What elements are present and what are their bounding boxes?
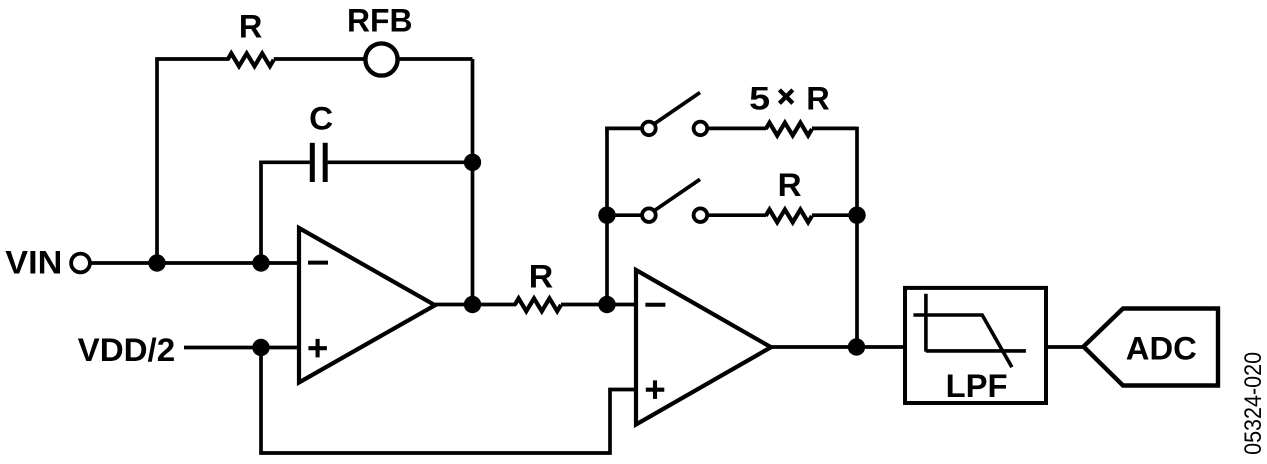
svg-text:R: R xyxy=(806,81,830,117)
node: U1 output / feedback junction xyxy=(464,296,481,313)
wire: S2 to resistor R xyxy=(709,213,766,217)
wire: S1 to resistor 5xR xyxy=(709,127,766,131)
resistor R (top feedback) xyxy=(228,53,274,66)
svg-text:5: 5 xyxy=(749,81,770,117)
U1 minus input symbol xyxy=(308,261,328,265)
node: U2 output / switch feedback junction xyxy=(848,338,865,355)
switch S1 lever xyxy=(655,93,701,124)
wire: bottom feedback to U2 plus input xyxy=(261,348,636,454)
node: VIN / capacitor junction xyxy=(252,254,269,271)
LPF response glyph xyxy=(913,294,1026,367)
potentiometer RFB (circle element) xyxy=(365,43,397,75)
resistor R (row 2) xyxy=(766,210,812,223)
svg-text:VIN: VIN xyxy=(5,244,62,280)
wire: resistor R to RFB xyxy=(274,57,365,61)
switch S2 pole contact xyxy=(642,208,656,222)
node: capacitor / right feedback junction xyxy=(464,154,481,171)
switch S2 throw contact xyxy=(694,208,708,222)
svg-text:C: C xyxy=(309,100,333,136)
op-amp U1 xyxy=(299,228,435,383)
node: switch row 2 right junction xyxy=(848,207,865,224)
wire: capacitor right xyxy=(328,160,473,164)
node: VDD/2 / bottom feedback junction xyxy=(252,339,269,356)
wire: capacitor left riser xyxy=(261,162,310,263)
wire: switch row 2 left xyxy=(607,213,641,217)
switch S1 throw contact xyxy=(694,122,708,136)
wire: left feedback riser + top feedback left xyxy=(157,59,229,263)
switch S2 lever xyxy=(655,179,701,210)
node: VIN / left feedback junction xyxy=(148,254,165,271)
resistor 5xR xyxy=(766,123,812,136)
svg-text:LPF: LPF xyxy=(946,368,1008,404)
node: switch branch junction xyxy=(598,296,615,313)
wire: right feedback vertical xyxy=(471,59,475,305)
wire: resistor 5xR to right vertical xyxy=(812,127,857,131)
wire: VDD/2 to U1 plus input xyxy=(184,346,299,350)
U2 plus input symbol xyxy=(646,380,665,399)
svg-text:RFB: RFB xyxy=(347,2,413,38)
U2 minus input symbol xyxy=(645,303,665,307)
svg-text:R: R xyxy=(239,8,263,44)
capacitor C left plate xyxy=(310,143,315,182)
wire: switch left vertical xyxy=(605,127,609,305)
wire: U1 output xyxy=(435,303,516,307)
resistor R (between op-amps) xyxy=(515,298,561,311)
wire: U2 output to LPF xyxy=(771,345,905,349)
svg-text:R: R xyxy=(778,167,802,203)
input terminal VIN (open circle) xyxy=(71,254,90,273)
node: switch row 2 left junction xyxy=(598,207,615,224)
capacitor C right plate xyxy=(323,143,328,182)
LPF box xyxy=(905,288,1046,403)
wire: switch right vertical xyxy=(855,127,859,347)
op-amp U2 xyxy=(636,270,771,425)
wire: resistor R to U2 minus xyxy=(561,303,636,307)
svg-text:R: R xyxy=(529,259,554,295)
wire: RFB to right feedback riser xyxy=(398,57,473,61)
wire: top switch row left xyxy=(605,127,641,131)
switch S1 pole contact xyxy=(642,122,656,136)
svg-text:05324-020: 05324-020 xyxy=(1240,352,1267,455)
wire: resistor R to right vertical xyxy=(812,213,857,217)
U1 plus input symbol xyxy=(308,339,327,358)
svg-text:ADC: ADC xyxy=(1126,331,1197,367)
wire: VIN input to U1 minus xyxy=(91,261,299,265)
svg-text:VDD/2: VDD/2 xyxy=(78,332,176,368)
wire: LPF to ADC xyxy=(1046,345,1084,349)
ADC block xyxy=(1084,309,1219,386)
